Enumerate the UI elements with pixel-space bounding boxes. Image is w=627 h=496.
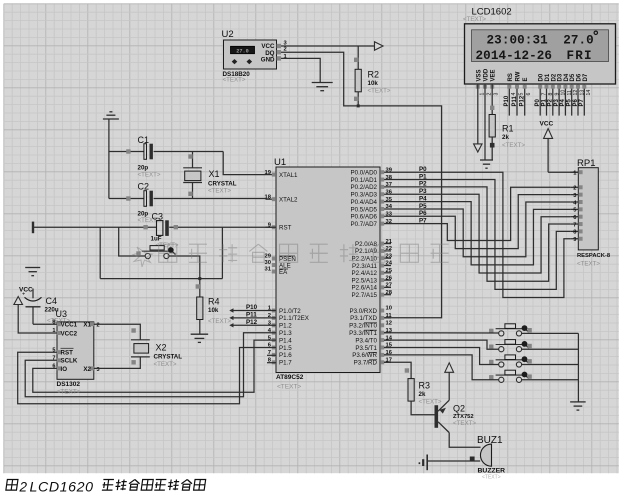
wire U2 GND pin1 down — [281, 58, 320, 82]
caption figure 2 LCD1602 MCU wiring — [6, 479, 206, 495]
svg-text:6: 6 — [52, 364, 55, 370]
svg-text:27: 27 — [386, 283, 392, 289]
svg-text:31: 31 — [265, 267, 272, 273]
svg-text:R3: R3 — [419, 380, 431, 390]
svg-text:P3.0/RXD: P3.0/RXD — [349, 308, 377, 315]
svg-text:P1: P1 — [419, 173, 427, 180]
buzzer BUZ1 — [477, 435, 505, 481]
svg-text:R1: R1 — [502, 123, 514, 133]
svg-text:P6: P6 — [573, 98, 579, 106]
push button KEY4 — [489, 370, 532, 382]
svg-text:C4: C4 — [46, 296, 58, 306]
svg-text:P7: P7 — [419, 217, 427, 224]
junction R4-top on loop — [198, 277, 201, 280]
capacitor C3 1uF — [151, 211, 179, 249]
svg-text:2k: 2k — [419, 391, 426, 398]
svg-text:4: 4 — [511, 93, 517, 96]
svg-text:P5: P5 — [419, 203, 427, 210]
svg-text:P3.2/INT0: P3.2/INT0 — [349, 323, 377, 330]
svg-text:P3: P3 — [554, 98, 560, 106]
svg-text:2014-12-26: 2014-12-26 — [476, 49, 553, 63]
svg-text:P3.3/INT1: P3.3/INT1 — [349, 330, 377, 337]
microcontroller U1 AT89C52 body — [274, 157, 380, 391]
svg-text:23: 23 — [386, 253, 393, 259]
LCD pin stubs with numbers and net labels P10-P12 P0-P7 — [476, 84, 592, 116]
ground for VDD and R1 — [480, 160, 493, 168]
resistor pack RP1 RESPACK-8 — [570, 158, 611, 268]
svg-text:P0.3/AD3: P0.3/AD3 — [351, 192, 378, 199]
svg-text:+: + — [22, 292, 25, 298]
U1 pins with numbers and names — [265, 167, 393, 366]
svg-text:RW: RW — [516, 71, 522, 81]
svg-text:2: 2 — [19, 479, 28, 494]
wire U1 P1.3 to DS1302 SCLK — [25, 333, 276, 397]
svg-text:P12: P12 — [246, 319, 258, 326]
svg-text:<TEXT>: <TEXT> — [419, 398, 442, 405]
svg-text:P2.6/A14: P2.6/A14 — [352, 285, 378, 292]
svg-text:10k: 10k — [208, 307, 219, 314]
svg-text:20p: 20p — [138, 164, 149, 171]
floating ground below RST terminal — [25, 268, 40, 276]
svg-text:18: 18 — [265, 194, 272, 200]
bus wires P0-P7 from U1 port0 to RP1 pins 2-9 — [384, 172, 570, 297]
svg-text:7: 7 — [52, 356, 55, 362]
crystal X1 — [183, 152, 237, 199]
svg-text:P1.7: P1.7 — [279, 360, 292, 367]
stub U1 P1.6 — [267, 354, 276, 356]
svg-text:RESPACK-8: RESPACK-8 — [577, 253, 611, 259]
svg-text:XTAL2: XTAL2 — [279, 197, 298, 204]
svg-text:P0: P0 — [535, 98, 541, 106]
svg-text:GND: GND — [261, 57, 275, 64]
svg-text:P2.7/A15: P2.7/A15 — [352, 292, 378, 299]
svg-text:P1.3: P1.3 — [279, 330, 292, 337]
svg-text:14: 14 — [586, 90, 592, 96]
svg-text:EA: EA — [279, 269, 288, 276]
wire U1 P3.4 to KEY2 — [384, 340, 499, 349]
temperature sensor U2 DS18B20 — [222, 29, 288, 84]
svg-text:P1.4: P1.4 — [279, 337, 292, 344]
ground for R4 — [191, 334, 209, 342]
capacitor C1 20p — [138, 135, 161, 178]
wire RST row right part — [169, 225, 276, 229]
svg-text:25: 25 — [386, 268, 393, 274]
svg-text:P10: P10 — [504, 95, 510, 106]
svg-text:E: E — [523, 77, 529, 81]
wires buttons right side to common ground rail — [522, 333, 579, 401]
svg-text:<TEXT>: <TEXT> — [154, 361, 177, 368]
svg-text:P10: P10 — [246, 304, 258, 311]
svg-text:BUZZER: BUZZER — [478, 467, 506, 474]
svg-text:6: 6 — [526, 93, 532, 96]
svg-text:36: 36 — [386, 189, 393, 195]
svg-text:D7: D7 — [583, 73, 589, 81]
svg-text:D6: D6 — [577, 73, 583, 81]
resistor R4 10k — [196, 284, 232, 334]
svg-text:P1.1/T2EX: P1.1/T2EX — [279, 315, 309, 322]
svg-text:X2: X2 — [156, 342, 167, 352]
svg-text:VEE: VEE — [491, 69, 497, 81]
wire U1 P3.7 to R3 — [384, 362, 411, 378]
terminal bar left end of RST row — [32, 222, 34, 234]
svg-text:28: 28 — [386, 290, 393, 296]
svg-text:P3.6/WR: P3.6/WR — [352, 352, 377, 359]
svg-text:XTAL1: XTAL1 — [279, 172, 298, 179]
ground for buttons — [570, 402, 586, 410]
svg-text:D2: D2 — [551, 73, 557, 81]
wire U2 VCC pin3 to power arrow — [281, 45, 375, 47]
svg-text:P4: P4 — [560, 98, 566, 106]
svg-text:P2: P2 — [419, 181, 427, 188]
svg-text:X1: X1 — [209, 169, 220, 179]
wire U1 P3.3 to KEY1 — [384, 332, 499, 334]
svg-text:39: 39 — [386, 167, 393, 173]
junction DQ/R2 node — [357, 104, 360, 107]
watermark hangzhou company text — [133, 244, 449, 267]
svg-text:7: 7 — [573, 222, 576, 228]
svg-text:27.0: 27.0 — [563, 34, 594, 48]
svg-text:U1: U1 — [274, 157, 286, 168]
wire RST loop bottom — [100, 278, 222, 280]
wire RST to reset button left — [119, 227, 145, 256]
svg-text:U2: U2 — [222, 29, 234, 40]
svg-text:<TEXT>: <TEXT> — [223, 77, 246, 84]
ground for U2 — [312, 83, 333, 91]
wire U1 P1.5 to DS1302 RST — [18, 348, 276, 404]
svg-text:P4: P4 — [419, 195, 427, 202]
reset push button — [136, 246, 175, 259]
svg-text:P2.4/A12: P2.4/A12 — [352, 270, 378, 277]
svg-text:5: 5 — [52, 347, 55, 353]
wire LCD VEE down to R1 — [490, 84, 494, 115]
wire U1 P3.5 to KEY3 — [384, 348, 499, 365]
svg-text:10k: 10k — [368, 80, 379, 87]
svg-text:P2.5/A13: P2.5/A13 — [352, 277, 378, 284]
svg-text:3: 3 — [97, 367, 100, 373]
svg-text:CRYSTAL: CRYSTAL — [154, 353, 183, 360]
svg-text:2: 2 — [573, 186, 576, 192]
svg-text:D1: D1 — [545, 73, 551, 81]
svg-text:11: 11 — [386, 313, 393, 319]
svg-text:<TEXT>: <TEXT> — [138, 171, 161, 178]
transistor Q2 ZTX752 (PNP) — [435, 400, 477, 432]
resistor R2 10k pull-up — [354, 46, 391, 106]
power terminal VCC for DS1302 VCC2 — [14, 286, 57, 333]
svg-text:P3.5/T1: P3.5/T1 — [355, 345, 377, 352]
power terminal VCC for Q2 emitter — [445, 363, 454, 400]
svg-text:LCD1620: LCD1620 — [30, 479, 94, 495]
svg-text:P2.1/A9: P2.1/A9 — [355, 248, 378, 255]
svg-text:10: 10 — [386, 306, 392, 312]
wire buzzer bottom to battery — [428, 457, 480, 462]
svg-text:23:00:31: 23:00:31 — [487, 34, 549, 48]
wire reset button right to R4 top — [169, 256, 200, 297]
svg-text:32: 32 — [386, 219, 392, 225]
svg-text:D0: D0 — [539, 73, 545, 81]
wire U2 DQ pin2 to R2 bottom and MCU P3.1 — [281, 52, 442, 318]
svg-text:<TEXT>: <TEXT> — [482, 475, 501, 481]
wire U1 P3.6 to KEY4 — [384, 355, 499, 380]
power terminal VCC (right arrow) for U2 — [375, 42, 384, 50]
svg-text:P0.0/AD0: P0.0/AD0 — [351, 170, 378, 177]
svg-text:29: 29 — [265, 254, 272, 260]
svg-text:P5: P5 — [567, 98, 573, 106]
svg-text:34: 34 — [386, 204, 393, 210]
ground rail for crystal caps — [108, 119, 110, 199]
svg-text:D4: D4 — [564, 73, 570, 81]
svg-text:RS: RS — [508, 73, 514, 81]
svg-text:C1: C1 — [138, 135, 150, 145]
resistor R3 2k — [408, 379, 442, 415]
label U3 and text — [47, 309, 70, 325]
svg-text:Q2: Q2 — [453, 403, 465, 413]
wire RST row left part — [34, 225, 156, 229]
svg-text:38: 38 — [386, 175, 393, 181]
crystal X2 for DS1302 — [131, 340, 182, 368]
svg-text:P7: P7 — [579, 98, 585, 106]
push button KEY2 — [489, 340, 532, 352]
svg-text:37: 37 — [386, 182, 392, 188]
svg-text:8: 8 — [52, 319, 55, 325]
svg-text:VDD: VDD — [484, 68, 490, 81]
capacitor C4 220u — [22, 289, 59, 325]
svg-text:RST: RST — [279, 225, 292, 232]
svg-text:<TEXT>: <TEXT> — [577, 261, 600, 268]
svg-text:1: 1 — [52, 328, 55, 334]
power terminal VCC feeding RP1 pin 1 — [540, 121, 579, 173]
wire C1 row to XTAL1 — [223, 152, 265, 175]
svg-text:AT89C52: AT89C52 — [276, 374, 304, 381]
svg-text:P0.6/AD6: P0.6/AD6 — [351, 214, 378, 221]
svg-text:3: 3 — [494, 93, 500, 96]
ground for C1 C2 (inverted) — [103, 112, 119, 119]
svg-text:<TEXT>: <TEXT> — [277, 384, 301, 391]
svg-text:P2: P2 — [548, 98, 554, 106]
svg-text:RST: RST — [61, 350, 74, 357]
svg-text:26: 26 — [386, 275, 393, 281]
push button KEY3 — [489, 355, 532, 367]
svg-text:30: 30 — [265, 260, 271, 266]
svg-text:P0.2/AD2: P0.2/AD2 — [351, 184, 378, 191]
svg-text:<TEXT>: <TEXT> — [208, 318, 231, 325]
wire DS1302 X1 to crystal X2 — [94, 324, 141, 340]
svg-text:P2.0/A8: P2.0/A8 — [355, 241, 378, 248]
ground arrow terminal for VSS — [474, 144, 482, 152]
svg-text:VCC: VCC — [540, 121, 554, 128]
wire U1 P1.4 to DS1302 IO — [33, 340, 276, 392]
wire RST loop left vertical — [99, 227, 101, 278]
LCD display LCD1602 — [463, 7, 616, 85]
svg-text:D5: D5 — [570, 73, 576, 81]
wire LCD VDD down to ground — [484, 84, 486, 160]
svg-text:22: 22 — [386, 246, 392, 252]
svg-text:P0.1/AD1: P0.1/AD1 — [351, 177, 378, 184]
push button KEY1 — [489, 324, 532, 336]
svg-text:<TEXT>: <TEXT> — [453, 420, 476, 427]
svg-text:P1: P1 — [541, 98, 547, 106]
svg-text:P0.5/AD5: P0.5/AD5 — [351, 206, 378, 213]
svg-text:P3.1/TXD: P3.1/TXD — [350, 315, 377, 322]
battery cell terminal at buzzer — [419, 455, 428, 471]
net labels P0-P7 — [419, 166, 427, 224]
svg-text:<TEXT>: <TEXT> — [502, 142, 525, 149]
svg-text:P3.7/RD: P3.7/RD — [354, 360, 378, 367]
wire RST loop right vertical — [221, 227, 223, 278]
svg-text:P6: P6 — [419, 210, 427, 217]
svg-text:VSS: VSS — [476, 69, 482, 81]
svg-text:<TEXT>: <TEXT> — [368, 87, 391, 94]
svg-text:24: 24 — [386, 261, 393, 267]
svg-text:P1.0/T2: P1.0/T2 — [279, 308, 301, 315]
svg-text:<TEXT>: <TEXT> — [208, 188, 231, 195]
wire crystal X2 to DS1302 X2 pin — [94, 357, 141, 369]
svg-text:2k: 2k — [502, 134, 509, 141]
svg-text:5: 5 — [519, 93, 525, 96]
svg-text:P2.3/A11: P2.3/A11 — [352, 263, 378, 270]
wire Q2 collector to buzzer — [449, 433, 480, 448]
svg-text:27.0: 27.0 — [236, 48, 248, 54]
svg-text:IO: IO — [61, 366, 68, 373]
svg-text:P0: P0 — [419, 166, 427, 173]
svg-text:SCLK: SCLK — [61, 358, 78, 365]
svg-text:CRYSTAL: CRYSTAL — [208, 181, 237, 188]
svg-text:21: 21 — [386, 239, 393, 245]
svg-text:2: 2 — [97, 323, 100, 329]
svg-text:P12: P12 — [520, 95, 526, 106]
svg-text:X2: X2 — [83, 366, 91, 373]
resistor R1 2k (LCD contrast) — [489, 115, 525, 161]
svg-text:P11: P11 — [512, 95, 518, 106]
svg-text:<TEXT>: <TEXT> — [463, 16, 486, 23]
svg-text:P0.4/AD4: P0.4/AD4 — [351, 199, 378, 206]
svg-text:C2: C2 — [138, 182, 150, 192]
svg-text:P1.6: P1.6 — [279, 352, 292, 359]
svg-text:<TEXT>: <TEXT> — [57, 389, 81, 396]
wire C1 row — [109, 149, 223, 153]
svg-text:VCC2: VCC2 — [61, 330, 78, 337]
svg-text:FRI: FRI — [567, 49, 593, 63]
svg-text:P11: P11 — [246, 312, 257, 319]
svg-text:19: 19 — [265, 170, 272, 176]
svg-text:P3: P3 — [419, 188, 427, 195]
svg-text:R2: R2 — [368, 70, 380, 80]
svg-text:35: 35 — [386, 197, 393, 203]
RTC U3 DS1302 — [52, 319, 99, 395]
svg-text:33: 33 — [386, 212, 393, 218]
svg-text:P1.5: P1.5 — [279, 345, 292, 352]
svg-text:C3: C3 — [152, 211, 164, 221]
wire LCD VSS down — [477, 84, 479, 144]
svg-text:12: 12 — [386, 321, 392, 327]
svg-text:VCC1: VCC1 — [61, 322, 78, 329]
svg-text:X1: X1 — [83, 322, 91, 329]
capacitor C2 20p — [138, 182, 161, 225]
svg-text:R4: R4 — [208, 296, 220, 306]
wire C2 XTAL2 row — [109, 196, 266, 200]
svg-text:DS1302: DS1302 — [57, 381, 81, 388]
svg-text:P3.4/T0: P3.4/T0 — [355, 337, 377, 344]
svg-text:D3: D3 — [558, 73, 564, 81]
wires and net labels P10 P11 P12 on U1 P1.0-P1.2 — [229, 304, 276, 327]
svg-text:P1.2: P1.2 — [279, 323, 292, 330]
stub U1 P1.7 — [267, 362, 276, 364]
svg-text:P0.7/AD7: P0.7/AD7 — [351, 221, 378, 228]
